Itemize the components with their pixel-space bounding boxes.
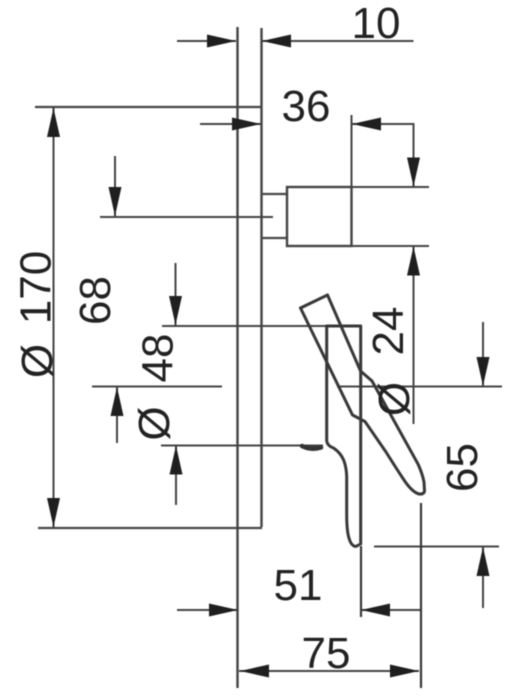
svg-text:75: 75 (302, 629, 351, 678)
svg-text:68: 68 (71, 276, 120, 325)
svg-text:10: 10 (352, 0, 401, 48)
svg-text:Ø: Ø (13, 344, 62, 378)
svg-text:Ø: Ø (370, 382, 419, 416)
svg-text:48: 48 (134, 334, 183, 383)
svg-text:170: 170 (12, 251, 61, 324)
svg-text:36: 36 (282, 82, 331, 131)
svg-text:24: 24 (364, 307, 413, 356)
svg-text:Ø: Ø (130, 406, 179, 440)
svg-text:65: 65 (438, 443, 487, 492)
svg-text:51: 51 (274, 561, 323, 610)
